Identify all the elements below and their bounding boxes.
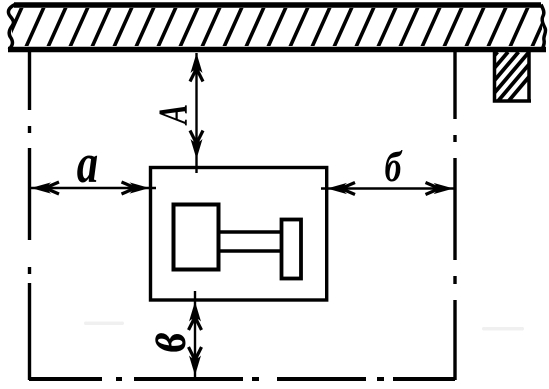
scan smudge left	[84, 322, 124, 326]
wall bottom edge	[8, 47, 546, 53]
dimension v line	[194, 291, 196, 377]
wall top edge	[14, 2, 541, 8]
dimension a right arrowhead	[130, 182, 150, 193]
svg-text:в: в	[129, 332, 199, 352]
svg-text:а: а	[77, 133, 98, 195]
dimension v top arrowhead	[189, 302, 201, 322]
dimension b right arrowhead	[434, 183, 454, 194]
scan smudge right	[482, 327, 524, 331]
dimension b left arrowhead	[327, 183, 347, 194]
dimension A line	[195, 53, 197, 173]
dimension A top arrowhead	[191, 53, 203, 73]
dimension a left arrowhead	[31, 182, 51, 193]
column (wall pier) outline	[495, 51, 532, 101]
svg-text:б: б	[385, 143, 403, 191]
wall right break line	[541, 5, 546, 50]
dimension b line	[321, 187, 454, 189]
right centerline (room boundary)	[453, 51, 456, 380]
column right edge	[527, 51, 531, 101]
shaft lower line	[218, 249, 282, 253]
dimension a line	[31, 187, 156, 189]
wall left break line	[8, 5, 15, 50]
bottom centerline (room boundary)	[29, 377, 455, 381]
left centerline (room boundary)	[28, 52, 31, 380]
coupling block	[282, 220, 302, 279]
machine outline	[151, 168, 327, 301]
wall hatching	[4, 7, 549, 47]
dimension v bottom arrowhead	[189, 356, 201, 376]
shaft upper line	[218, 230, 282, 234]
motor block	[174, 205, 219, 270]
column hatching	[454, 52, 549, 104]
svg-text:А: А	[150, 104, 196, 126]
dimension A bottom arrowhead	[191, 139, 203, 159]
